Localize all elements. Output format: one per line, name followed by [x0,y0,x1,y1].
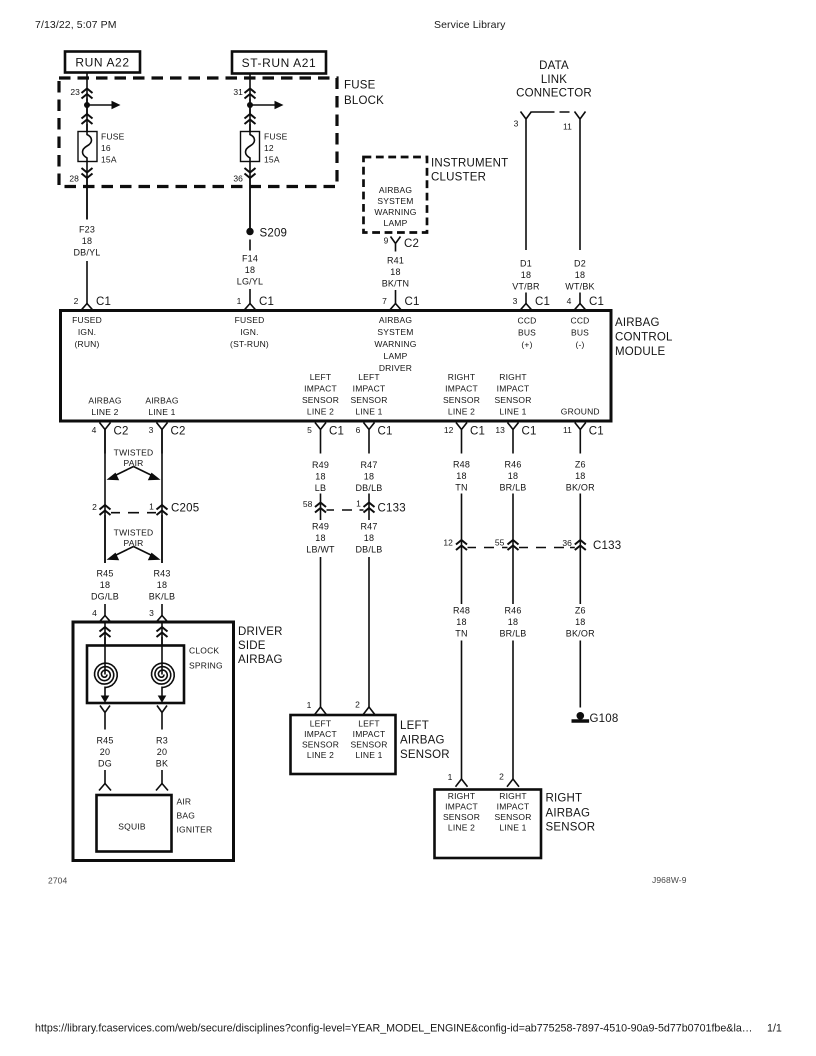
svg-text:BAG: BAG [177,811,196,821]
svg-text:R45: R45 [96,736,113,746]
svg-text:18: 18 [508,471,518,481]
svg-text:R3: R3 [156,736,168,746]
svg-text:LINE 2: LINE 2 [448,823,475,833]
svg-text:1/1: 1/1 [767,1023,782,1035]
pin 12 label C133 [443,538,453,548]
svg-text:FUSE: FUSE [344,80,376,92]
svg-text:4: 4 [92,425,97,435]
pin 4 label airbag [92,608,97,618]
svg-text:C1: C1 [522,426,537,438]
pin 1 label [237,296,242,306]
svg-text:BK/OR: BK/OR [566,483,595,493]
connector Y below clockspring left [100,706,110,730]
svg-text:R47: R47 [360,522,377,532]
svg-text:18: 18 [575,471,585,481]
wire R41 label [382,256,410,289]
svg-text:LINE 1: LINE 1 [148,407,175,417]
left sensor pin 2 lambda [363,707,375,715]
module text airbag line 1 [145,396,178,418]
connector C2 label cluster [404,238,419,250]
clock spring box [87,646,184,704]
connector C1 label col f [522,426,537,438]
svg-text:IGN.: IGN. [240,327,258,337]
in-line chevron down pin 36 [245,168,256,178]
wire to spiral right [161,646,163,675]
svg-text:18: 18 [456,471,466,481]
svg-text:1: 1 [356,499,361,509]
svg-text:C1: C1 [535,296,550,308]
svg-text:WARNING: WARNING [374,339,416,349]
svg-text:R46: R46 [504,606,521,616]
pin 2 label C205 [92,502,97,512]
connector C205 label [171,503,199,515]
svg-text:LINE 1: LINE 1 [355,407,382,417]
connector C205 pin 1 chevron [157,505,168,515]
svg-text:FUSED: FUSED [72,315,102,325]
svg-text:18: 18 [245,265,255,275]
connector C1 label col4 [535,296,550,308]
wire R43 18 label [149,569,176,602]
connector C1 pin 7 lambda [390,304,402,311]
svg-text:IMPACT: IMPACT [304,729,337,739]
fuse F12 15A [241,132,260,162]
connector RUN A22 box [65,52,140,73]
data link connector pin 11 Y [575,112,586,129]
connector C1 pin 1 lambda [244,304,256,311]
svg-text:C1: C1 [589,426,604,438]
svg-text:18: 18 [157,580,167,590]
squib box [97,795,172,852]
wire F23 upper segment [86,178,88,220]
pin 36 label [233,174,243,184]
svg-text:3: 3 [149,425,154,435]
clock spring label [189,646,223,671]
svg-text:Z6: Z6 [575,606,586,616]
module text warning lamp driver [374,315,416,373]
svg-text:LAMP: LAMP [384,351,408,361]
pin 5 label [307,425,312,435]
wire airbag line 2 upper [104,430,106,564]
svg-text:7/13/22, 5:07 PM: 7/13/22, 5:07 PM [35,19,117,31]
svg-text:https://library.fcaservices.co: https://library.fcaservices.com/web/secu… [35,1023,752,1035]
module text right impact sensor line 2 [443,372,480,417]
connector C133 right label [593,540,621,552]
pin 4 label bottom [92,425,97,435]
svg-text:SENSOR: SENSOR [546,822,596,834]
pin 3 label dlc [514,119,519,129]
chevron clockspring left [100,627,111,637]
module text left impact sensor line 1 [350,372,387,417]
svg-text:15A: 15A [264,155,280,165]
svg-text:DB/LB: DB/LB [355,483,382,493]
svg-text:AIRBAG: AIRBAG [615,317,660,329]
pin 4 label module [567,296,572,306]
svg-text:RIGHT: RIGHT [546,793,583,805]
svg-text:SPRING: SPRING [189,661,223,671]
wire spiral exit left with arrow [101,687,110,703]
fuse F16 15A [78,132,97,162]
connector C1 label col2 [259,296,274,308]
svg-text:AIRBAG: AIRBAG [379,185,412,195]
connector C133 pin 12 chevron [456,540,467,550]
module text right impact sensor line 1 [494,372,531,417]
wire fuse 12 to chevron [249,162,251,229]
svg-text:DG/LB: DG/LB [91,592,119,602]
airbag control module label [615,317,673,358]
svg-text:R45: R45 [96,569,113,579]
connector C1 pin 12 Y [456,423,467,454]
svg-text:12: 12 [264,143,274,153]
pin 2 label [74,296,79,306]
svg-text:GROUND: GROUND [561,407,600,417]
svg-text:CCD: CCD [517,316,536,326]
svg-text:IMPACT: IMPACT [353,384,386,394]
footer page indicator [767,1023,782,1035]
pin 1 label C205 [149,502,154,512]
connector C2 pin 9 Y [391,237,401,252]
svg-text:C2: C2 [171,426,186,438]
svg-text:2: 2 [355,700,360,710]
in-line chevron above fuse 16 [82,114,93,124]
svg-text:AIRBAG: AIRBAG [145,396,178,406]
svg-text:WARNING: WARNING [374,207,416,217]
svg-text:D1: D1 [520,259,532,269]
svg-text:LAMP: LAMP [384,218,408,228]
pin 3 label airbag [149,608,154,618]
svg-text:R41: R41 [387,256,404,266]
left airbag sensor label [400,720,450,761]
svg-text:ST-RUN A21: ST-RUN A21 [242,56,317,70]
connector C133 right dashed bridge [468,547,575,549]
pin 1 label right sensor [448,772,453,782]
svg-text:LINE 2: LINE 2 [91,407,118,417]
svg-text:SENSOR: SENSOR [443,812,480,822]
connector C133 left label [378,503,406,515]
svg-text:BK/TN: BK/TN [382,279,410,289]
wire into clockspring left [104,622,106,646]
right sensor pin 1 lambda [456,779,468,787]
wire to C133 right col e [461,494,463,605]
wire R48 TN label2 [453,606,470,639]
svg-text:18: 18 [315,472,325,482]
wire R45 18 label [91,569,119,602]
clock spring coil left [95,663,118,688]
svg-text:DB/YL: DB/YL [73,248,100,258]
svg-text:CONTROL: CONTROL [615,332,673,344]
svg-text:7: 7 [382,296,387,306]
svg-text:11: 11 [563,425,572,435]
svg-text:SQUIB: SQUIB [118,822,146,832]
right sensor text line 2 [443,791,480,833]
svg-text:3: 3 [513,296,518,306]
right sensor text line 1 [494,791,531,833]
svg-text:2: 2 [92,502,97,512]
connector C1 pin 6 Y [364,423,375,454]
connector C1 label col g [589,426,604,438]
svg-text:LEFT: LEFT [358,719,380,729]
svg-text:18: 18 [521,270,531,280]
connector C2 pin 4 Y [100,423,111,454]
chevron clockspring right [157,627,168,637]
left sensor text line 2 [302,719,339,761]
svg-text:20: 20 [157,747,167,757]
svg-text:36: 36 [233,174,243,184]
svg-text:C1: C1 [378,426,393,438]
svg-text:1: 1 [237,296,242,306]
svg-text:FUSE: FUSE [264,132,288,142]
wire to C133 left col d [368,494,370,521]
air bag igniter label [177,797,213,835]
wire to C133 right col g [579,494,581,605]
svg-text:CLOCK: CLOCK [189,646,219,656]
svg-text:SENSOR: SENSOR [350,395,387,405]
fuse block dashed box [59,78,337,187]
pin 1 label left sensor [307,700,312,710]
svg-text:C133: C133 [593,540,621,552]
data link connector label [516,60,592,100]
svg-text:MODULE: MODULE [615,346,666,358]
svg-text:DRIVER: DRIVER [379,363,412,373]
svg-text:AIRBAG: AIRBAG [379,315,412,325]
module text ground [561,407,600,417]
svg-text:G108: G108 [590,713,619,725]
pin 12 label [444,425,454,435]
connector C1 pin 2 lambda [81,304,93,311]
svg-text:C205: C205 [171,503,199,515]
connector C1 label col d [378,426,393,438]
wire Z6 18 BKOR label [566,460,595,493]
svg-text:R48: R48 [453,606,470,616]
connector C1 pin 4 lambda [574,304,586,311]
svg-text:CCD: CCD [570,316,589,326]
wire squib right segment [161,770,163,784]
svg-text:BLOCK: BLOCK [344,95,384,107]
svg-text:LINK: LINK [541,74,567,86]
svg-text:D2: D2 [574,259,586,269]
wire R49 18 LB label [312,460,329,493]
svg-text:18: 18 [390,267,400,277]
wire to C133 right col f [512,494,514,605]
branch arrow column 1 [87,101,121,109]
module text airbag line 2 [88,396,121,418]
svg-text:BK/LB: BK/LB [149,592,176,602]
svg-text:AIRBAG: AIRBAG [88,396,121,406]
connector C133 pin 36 chevron [575,540,586,550]
svg-text:11: 11 [563,122,572,132]
svg-text:R48: R48 [453,460,470,470]
svg-text:58: 58 [303,499,313,509]
splice S209 [246,228,287,240]
wire R3 20 label [156,736,168,769]
svg-text:LINE 2: LINE 2 [307,750,334,760]
fuse block label [344,80,384,108]
svg-text:LINE 1: LINE 1 [499,823,526,833]
svg-text:C2: C2 [404,238,419,250]
svg-text:LB: LB [315,483,326,493]
svg-text:TWISTED: TWISTED [114,448,154,458]
svg-text:RIGHT: RIGHT [448,372,475,382]
module text left impact sensor line 2 [302,372,339,417]
svg-text:F14: F14 [242,254,258,264]
pin 13 label [495,425,505,435]
pin 55 label C133 [495,538,505,548]
wire into clockspring right [161,622,163,646]
svg-text:LEFT: LEFT [310,719,332,729]
wire right sensor line 1 long [512,641,514,780]
wire R45 lower segment [104,604,106,616]
svg-text:36: 36 [562,538,572,548]
svg-text:6: 6 [356,425,361,435]
wire D1 label [512,259,540,292]
svg-text:BUS: BUS [571,328,589,338]
data link connector pin 3 Y [521,112,532,129]
svg-text:23: 23 [70,87,80,97]
wire D1 upper segment [525,128,527,250]
svg-text:18: 18 [575,617,585,627]
driver airbag pin 4 lambda [99,616,111,623]
svg-text:C1: C1 [259,296,274,308]
pin 2 label left sensor [355,700,360,710]
pin 3 label module [513,296,518,306]
pin 7 label [382,296,387,306]
drawing number J968W-9 [652,875,687,885]
page number 2704 [48,876,67,886]
svg-text:AIRBAG: AIRBAG [238,654,283,666]
junction node column 1 [84,102,90,108]
in-line connector chevron pin 23 [82,89,93,99]
wire chevron to spring right [161,637,163,646]
connector C205 dashed bridge [111,512,156,514]
connector C1 pin 5 Y [315,423,326,454]
connector C2 label col a [114,426,129,438]
svg-text:DB/LB: DB/LB [355,545,382,555]
driver side airbag box [73,622,234,861]
wire D2 label [565,259,595,292]
svg-text:SENSOR: SENSOR [302,740,339,750]
svg-text:SENSOR: SENSOR [302,395,339,405]
wire F14 lower segment [249,289,251,304]
wire ST-RUN A21 to fuse 12 [249,74,251,132]
wire Z6 BKOR label2 [566,606,595,639]
wire squib left segment [104,770,106,784]
connector C1 label col3 [405,296,420,308]
svg-text:C133: C133 [378,503,406,515]
twisted pair label lower [114,528,154,549]
wire airbag line 1 upper [161,430,163,564]
svg-text:R49: R49 [312,460,329,470]
wire R46 BRLB label2 [499,606,526,639]
svg-text:IMPACT: IMPACT [304,384,337,394]
fuse 12 value label [264,132,288,165]
pin 11 label dlc [563,122,572,132]
svg-text:C1: C1 [589,296,604,308]
pin 2 label right sensor [499,772,504,782]
data link connector bridge line [532,111,570,113]
svg-text:IMPACT: IMPACT [497,802,530,812]
connector C2 label col b [171,426,186,438]
connector C1 label col1 [96,296,111,308]
svg-text:55: 55 [495,538,505,548]
svg-text:IGN.: IGN. [78,327,96,337]
svg-text:C1: C1 [405,296,420,308]
ground G108 [572,712,590,723]
header date text [35,19,117,31]
footer url text [35,1023,752,1035]
svg-text:15A: 15A [101,155,117,165]
svg-text:BR/LB: BR/LB [499,483,526,493]
wire fuse 16 to chevron [86,162,88,220]
right airbag sensor label [546,793,596,834]
svg-text:C1: C1 [470,426,485,438]
svg-text:18: 18 [100,580,110,590]
wire D2 lower segment [579,293,581,304]
clock spring coil right [152,663,175,688]
svg-text:J968W-9: J968W-9 [652,875,687,885]
wire F14 label [237,254,264,287]
svg-text:(+): (+) [521,340,532,350]
svg-text:AIR: AIR [177,797,192,807]
svg-text:CLUSTER: CLUSTER [431,172,486,184]
svg-text:SYSTEM: SYSTEM [377,327,413,337]
svg-text:TN: TN [455,483,467,493]
svg-text:LEFT: LEFT [400,720,429,732]
svg-text:SIDE: SIDE [238,640,266,652]
driver airbag pin 3 lambda [156,616,168,623]
svg-text:13: 13 [495,425,505,435]
svg-text:IGNITER: IGNITER [177,825,213,835]
svg-text:12: 12 [444,425,454,435]
wire chevron to spring left [104,637,106,646]
wire chevron to fuse 16 [86,124,88,132]
wire chevron to fuse 12 [249,124,251,132]
svg-text:VT/BR: VT/BR [512,282,540,292]
left airbag sensor box [291,715,396,774]
svg-text:FUSE: FUSE [101,132,125,142]
wire R41 lower segment [395,290,397,304]
squib label [118,822,146,832]
instrument cluster dashed box [364,157,428,233]
svg-text:20: 20 [100,747,110,757]
pin 3 label bottom [149,425,154,435]
squib pin lambda right [156,784,168,791]
connector Y below clockspring right [157,706,167,730]
svg-text:SENSOR: SENSOR [443,395,480,405]
svg-text:3: 3 [514,119,519,129]
svg-text:IMPACT: IMPACT [353,729,386,739]
svg-text:TWISTED: TWISTED [114,528,154,538]
svg-text:Service Library: Service Library [434,19,506,31]
branch arrow column 2 [250,101,284,109]
svg-text:BR/LB: BR/LB [499,629,526,639]
connector C1 pin 13 Y [508,423,519,454]
connector C1 pin 11 Y [575,423,586,454]
airbag warning lamp text [374,185,416,228]
right airbag sensor box [435,790,542,859]
svg-text:RUN A22: RUN A22 [75,56,129,70]
svg-text:12: 12 [443,538,453,548]
svg-text:18: 18 [456,617,466,627]
pin 9 label [384,236,389,246]
svg-text:LINE 2: LINE 2 [448,407,475,417]
svg-text:18: 18 [315,533,325,543]
wire left sensor line 1 long [368,557,370,707]
header title text [434,19,506,31]
svg-text:DRIVER: DRIVER [238,626,283,638]
svg-text:RIGHT: RIGHT [499,791,526,801]
connector C133 pin 55 chevron [508,540,519,550]
svg-text:RIGHT: RIGHT [448,791,475,801]
wire spiral exit right with arrow [158,687,167,703]
